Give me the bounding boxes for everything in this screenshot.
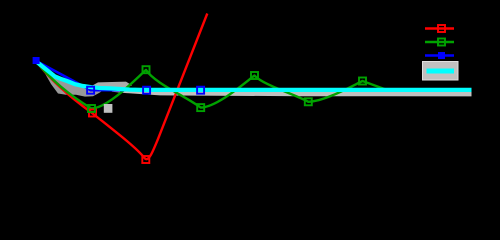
green marker v3 — [197, 104, 204, 111]
legend cyan line — [427, 69, 455, 74]
green marker p2 — [143, 66, 150, 73]
blue marker 2 — [87, 87, 94, 94]
gray band left wedge — [36, 62, 110, 97]
legend — [423, 25, 459, 80]
green marker v1 — [88, 105, 95, 112]
green marker p6 — [359, 78, 366, 85]
legend green entry — [425, 41, 454, 43]
blue converging curve — [36, 61, 200, 90]
red marker bottom vertex — [142, 156, 149, 163]
legend red entry — [425, 27, 454, 29]
blue marker 4 — [197, 87, 204, 94]
green oscillating curve — [36, 62, 471, 109]
blue marker 3 — [143, 87, 150, 94]
blue start marker (filled) — [33, 57, 40, 64]
gray square marker (outlier) — [104, 104, 113, 113]
green marker v5 — [305, 98, 312, 105]
gray band flat section — [108, 88, 472, 96]
legend gray patch — [423, 62, 459, 81]
cyan reference line (thick) — [36, 62, 471, 90]
red marker node1 (mostly hidden) — [89, 110, 96, 117]
legend blue entry — [425, 54, 454, 57]
gray streak above cyan — [92, 82, 132, 88]
green marker p4 — [251, 72, 258, 79]
red curve (diverging) — [36, 14, 207, 160]
